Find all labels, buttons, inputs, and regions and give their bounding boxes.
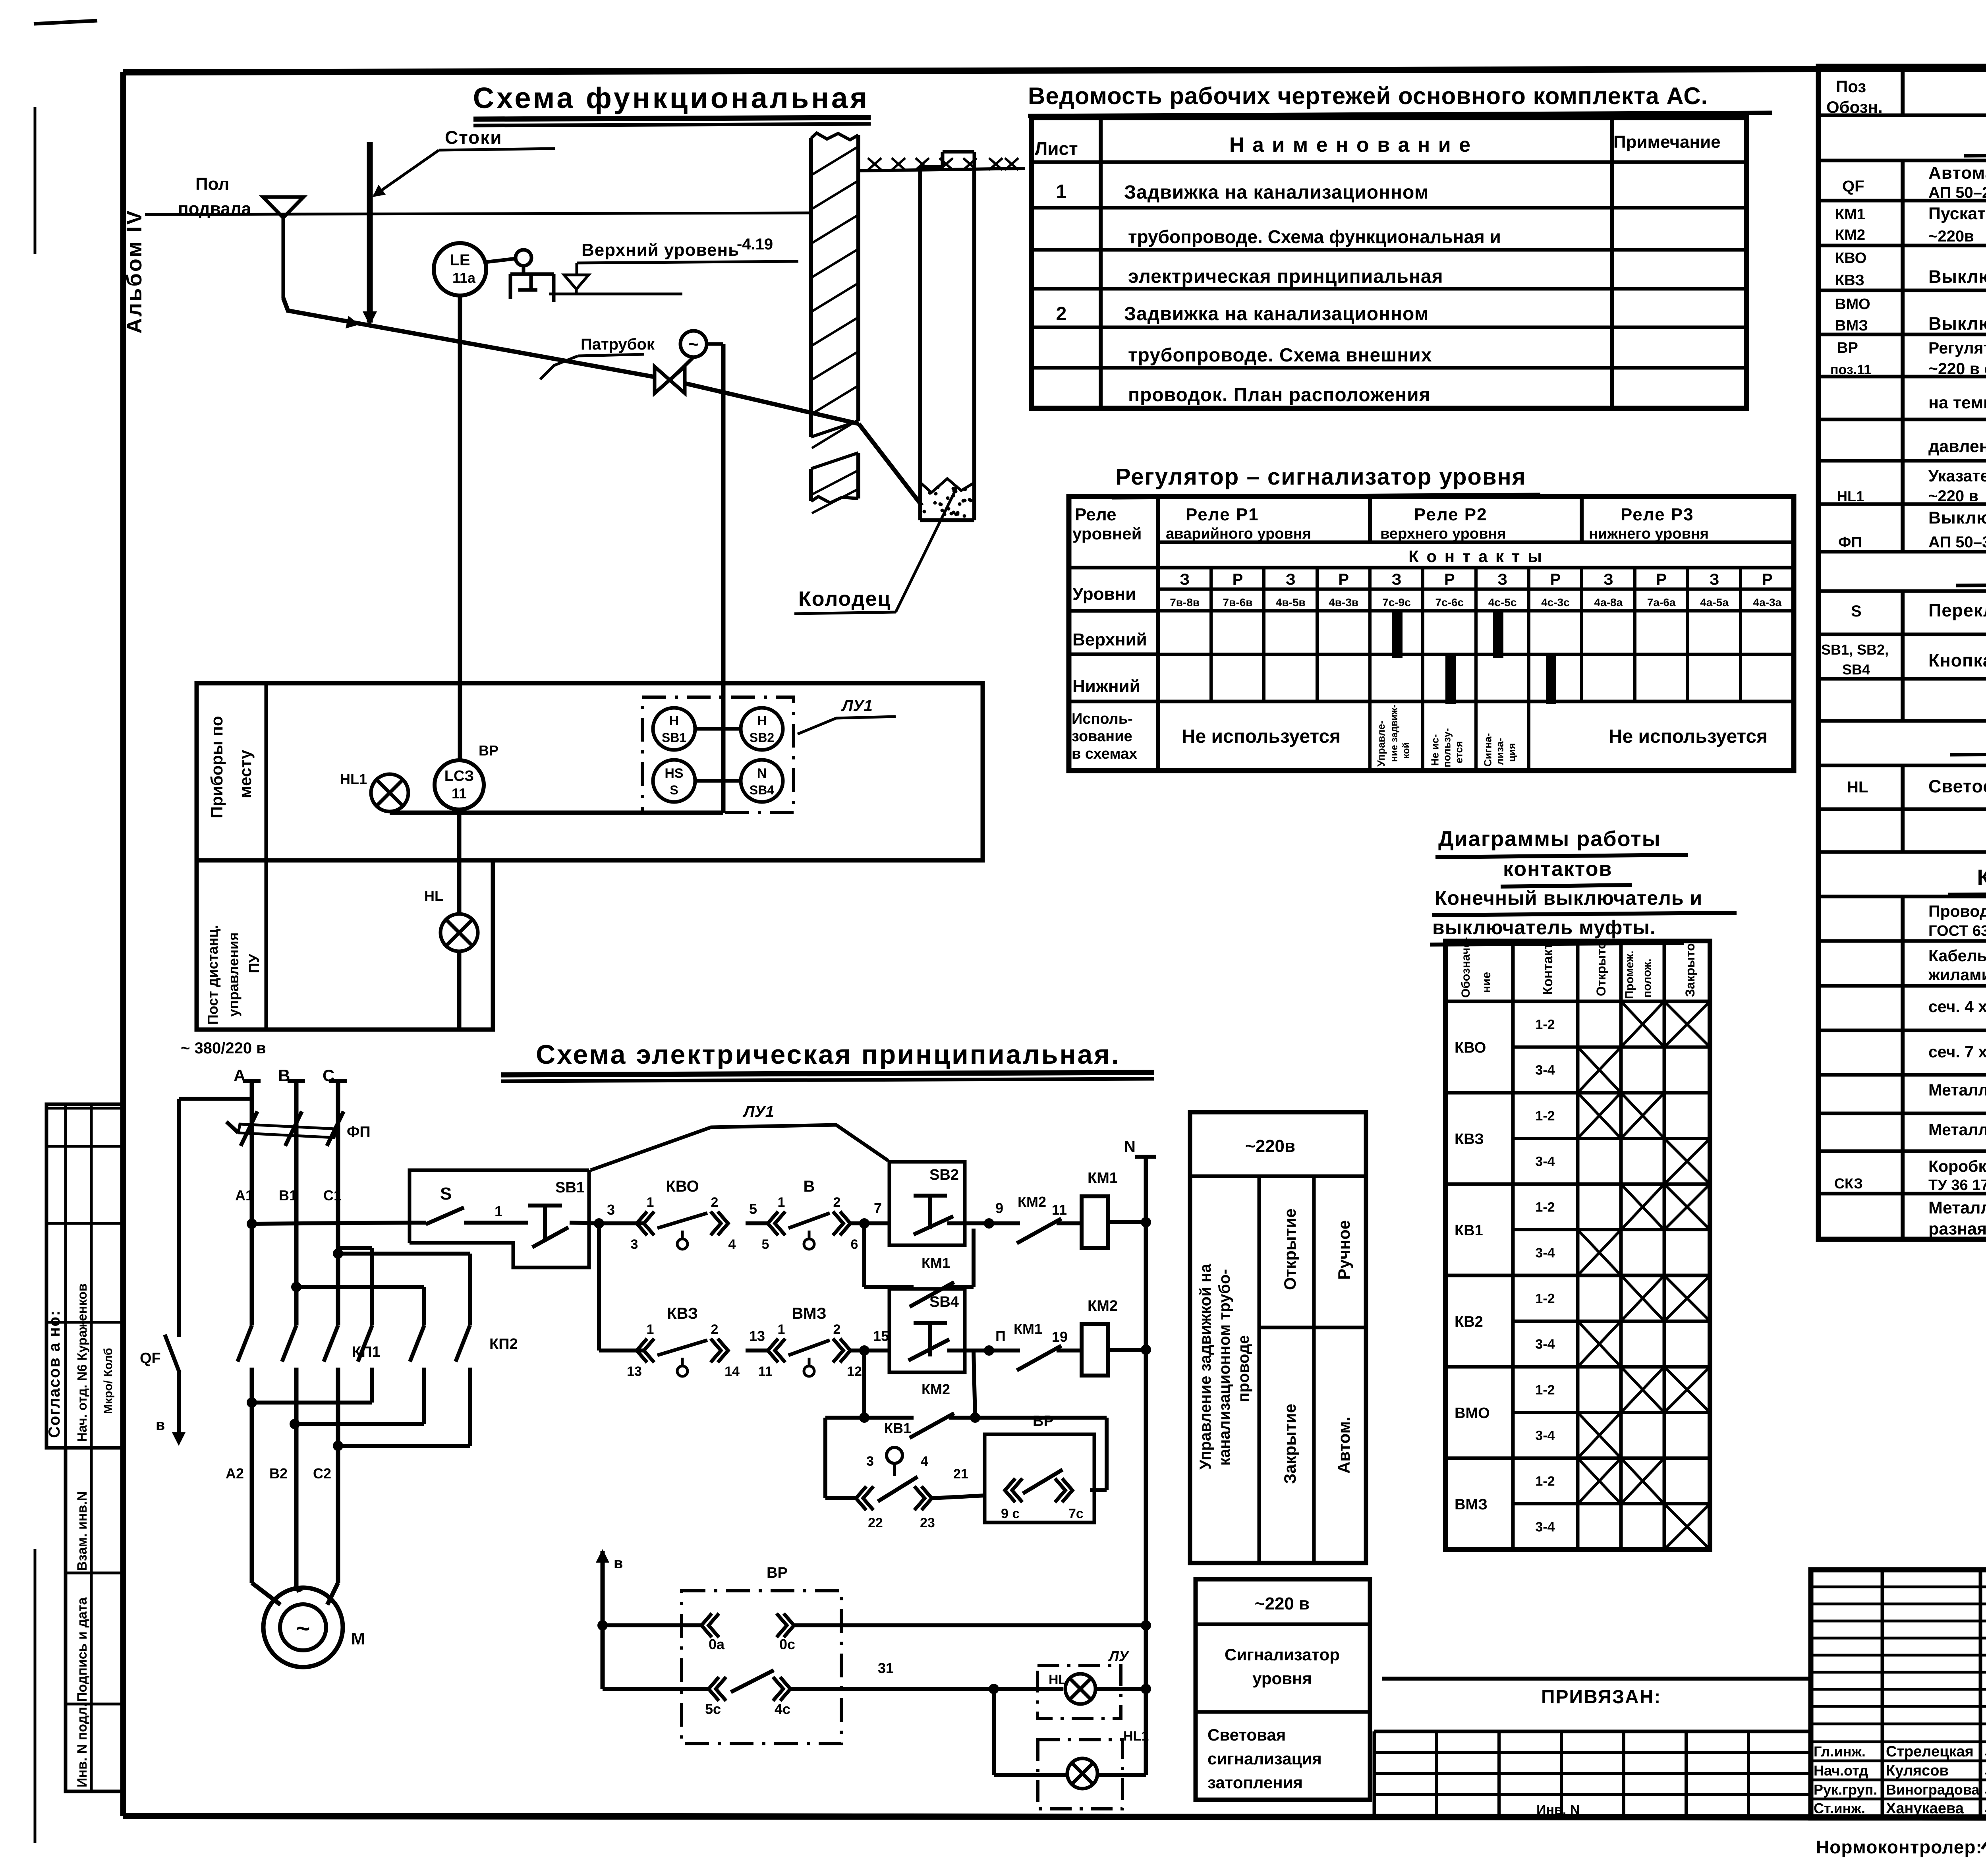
svg-text:Переключатель: Переключатель [1928, 600, 1986, 620]
svg-text:аварийного уровня: аварийного уровня [1166, 526, 1311, 542]
svg-text:С1: С1 [323, 1187, 342, 1204]
svg-text:сеч. 7 х 2,5: сеч. 7 х 2,5 [1928, 1043, 1986, 1061]
svg-text:З: З [1497, 571, 1507, 588]
svg-text:электрическая принципиальная: электрическая принципиальная [1128, 266, 1443, 287]
svg-text:В: В [804, 1178, 815, 1195]
button SB4 [889, 1289, 965, 1372]
svg-text:нижнего уровня: нижнего уровня [1589, 526, 1709, 542]
svg-text:21: 21 [953, 1466, 968, 1482]
svg-text:в схемах: в схемах [1072, 746, 1137, 762]
svg-text:Металлорукав РЗ-Ц-Х-20: Металлорукав РЗ-Ц-Х-20 [1928, 1121, 1986, 1139]
wire LCS down to HL [457, 810, 462, 914]
actuator circle [680, 331, 707, 357]
svg-text:Выключатель конечный муфты: Выключатель конечный муфты [1928, 313, 1986, 334]
svg-text:сеч. 4 х 2,5: сеч. 4 х 2,5 [1928, 997, 1986, 1016]
svg-text:Кулясов: Кулясов [1886, 1762, 1949, 1779]
svg-text:разная ): разная ) [1928, 1219, 1986, 1238]
svg-text:Исполь-: Исполь- [1072, 711, 1133, 727]
svg-text:LCЗ: LCЗ [444, 768, 474, 784]
svg-text:4: 4 [921, 1454, 928, 1469]
svg-text:Сигнализатор: Сигнализатор [1225, 1645, 1340, 1664]
svg-text:3-4: 3-4 [1535, 1520, 1555, 1535]
svg-text:Нач. отд. N6 Кураженков: Нач. отд. N6 Кураженков [75, 1283, 89, 1442]
svg-text:ВР: ВР [1837, 340, 1858, 356]
svg-text:SB2: SB2 [929, 1167, 959, 1183]
wire from sheet (в) [596, 1549, 609, 1563]
level sensor LE 11a [434, 243, 486, 296]
svg-text:~220 в с двумя датчиками: ~220 в с двумя датчиками l = 0.25 м [1928, 359, 1986, 378]
svg-text:контактов: контактов [1503, 858, 1612, 881]
svg-text:Пускатель реверсивный ПМЕ-12: Пускатель реверсивный ПМЕ-124. [1928, 204, 1986, 223]
svg-text:Р: Р [1444, 571, 1455, 588]
svg-text:Стрелецкая: Стрелецкая [1886, 1743, 1974, 1760]
svg-text:4а-8а: 4а-8а [1594, 596, 1623, 609]
svg-text:ЛУ: ЛУ [1108, 1648, 1130, 1664]
concrete wall hatched [811, 133, 858, 140]
svg-text:23: 23 [920, 1515, 935, 1530]
svg-text:9: 9 [995, 1200, 1003, 1216]
svg-text:~220 в: ~220 в [1928, 487, 1978, 505]
svg-text:1-2: 1-2 [1535, 1109, 1555, 1124]
svg-text:7с-9с: 7с-9с [1382, 596, 1411, 609]
svg-text:1: 1 [495, 1203, 502, 1219]
svg-text:6: 6 [851, 1237, 858, 1252]
svg-text:SB4: SB4 [929, 1294, 959, 1310]
svg-text:Автоматический выключатель: Автоматический выключатель [1928, 163, 1986, 183]
svg-text:4в-5в: 4в-5в [1276, 596, 1306, 609]
aux contact КМ2 branch [862, 1350, 866, 1418]
closed contact bars [1392, 611, 1403, 658]
svg-text:ПУ: ПУ [246, 954, 262, 973]
rung 1 wire [252, 1223, 409, 1224]
svg-text:HS: HS [665, 766, 683, 781]
svg-text:3-4: 3-4 [1535, 1063, 1555, 1078]
svg-text:HL1: HL1 [1123, 1729, 1149, 1744]
svg-text:А1: А1 [235, 1187, 253, 1204]
svg-text:уровня: уровня [1252, 1669, 1312, 1688]
svg-text:Н: Н [669, 713, 679, 728]
phase C rail [329, 1079, 347, 1083]
svg-text:HL: HL [1049, 1672, 1066, 1687]
svg-text:1-2: 1-2 [1535, 1200, 1555, 1215]
svg-text:Не используется: Не используется [1609, 726, 1768, 747]
left approval strip table [46, 1104, 123, 1448]
svg-text:1: 1 [647, 1195, 654, 1210]
svg-text:ВМЗ: ВМЗ [1455, 1496, 1488, 1513]
svg-text:Задвижка на канализационном: Задвижка на канализационном [1124, 182, 1429, 203]
svg-text:ВМО: ВМО [1455, 1405, 1490, 1422]
svg-text:месту: месту [236, 750, 255, 798]
svg-text:Конечный выключатель и: Конечный выключатель и [1435, 887, 1702, 909]
svg-text:КМ1: КМ1 [1835, 206, 1865, 223]
box Пост дистанц управления ПУ [197, 860, 493, 1030]
svg-text:N: N [757, 766, 767, 781]
svg-text:ВМЗ: ВМЗ [792, 1305, 826, 1322]
limit switch КВЗ [637, 1339, 647, 1362]
panel ЛУ1 boundary [591, 1125, 888, 1170]
svg-text:Открыто: Открыто [1594, 941, 1608, 996]
wire HL1 to control [390, 811, 723, 815]
wire LE to electrode [485, 259, 516, 262]
svg-text:лиза-: лиза- [1494, 738, 1506, 765]
svg-text:трубопроводе. Схема функционал: трубопроводе. Схема функциональная и [1128, 226, 1501, 247]
svg-text:S: S [1851, 603, 1862, 620]
svg-text:Согласов а но:: Согласов а но: [46, 1310, 63, 1438]
svg-text:Инв. N подл.: Инв. N подл. [75, 1703, 90, 1787]
svg-text:5с: 5с [705, 1701, 721, 1717]
valve [672, 357, 694, 378]
svg-text:Р: Р [1233, 571, 1243, 588]
lamp HL1 branch [992, 1689, 996, 1775]
svg-text:~: ~ [688, 334, 699, 354]
svg-text:Металлорукав РЗ-Ц-Х-15: Металлорукав РЗ-Ц-Х-15 [1928, 1081, 1986, 1099]
svg-text:КМ2: КМ2 [1088, 1298, 1118, 1314]
svg-text:АП 50–2м Iн.Р.=1.6А Iом: АП 50–2м Iн.Р.=1.6А Iомс.=1,3Iн [1928, 184, 1986, 201]
svg-text:Провод с медными жилами ПВ: Провод с медными жилами ПВ 1х1.0 [1928, 902, 1986, 920]
svg-text:2: 2 [711, 1322, 719, 1337]
svg-text:HL1: HL1 [1837, 488, 1864, 504]
svg-text:Н: Н [757, 713, 767, 728]
switch HS S [653, 760, 695, 802]
svg-text:З: З [1180, 571, 1190, 588]
svg-text:7в-8в: 7в-8в [1170, 596, 1200, 609]
svg-text:Реле Р2: Реле Р2 [1414, 505, 1488, 524]
svg-text:ГОСТ 6323-79.: ГОСТ 6323-79. [1928, 923, 1986, 939]
drain stack wire [367, 142, 373, 323]
svg-text:полож.: полож. [1641, 959, 1654, 998]
svg-text:жилами АКВВГ ГОСТ 1308-78: жилами АКВВГ ГОСТ 1308-78 [1928, 966, 1986, 984]
svg-text:1: 1 [647, 1322, 654, 1337]
svg-text:11а: 11а [452, 270, 476, 286]
signature grid [1881, 1570, 1884, 1818]
привязан area [1382, 1677, 1811, 1681]
svg-text:1: 1 [1056, 181, 1067, 202]
svg-text:Закрытие: Закрытие [1281, 1404, 1299, 1484]
svg-text:Кнопка управления: Кнопка управления [1928, 650, 1986, 670]
svg-text:11: 11 [452, 785, 467, 802]
page edge marks [34, 107, 37, 254]
svg-text:7а-6а: 7а-6а [1647, 596, 1676, 609]
svg-text:Коробка соединительная КСК-3: Коробка соединительная КСК-32 [1928, 1157, 1986, 1175]
svg-text:Пол: Пол [195, 174, 229, 194]
svg-text:Нижний: Нижний [1072, 676, 1140, 696]
svg-text:Закрыто: Закрыто [1683, 943, 1697, 997]
svg-text:3: 3 [607, 1202, 615, 1218]
svg-text:Приборы по: Приборы по [207, 716, 226, 818]
svg-text:КМ2: КМ2 [922, 1381, 950, 1397]
svg-text:~220 в: ~220 в [1255, 1594, 1310, 1613]
svg-text:КВ2: КВ2 [1455, 1314, 1483, 1330]
branch down to КВ1 rung [823, 1418, 827, 1498]
svg-text:3-4: 3-4 [1535, 1337, 1555, 1352]
svg-text:Примечание: Примечание [1613, 132, 1721, 152]
svg-text:Схема функциональная: Схема функциональная [473, 81, 870, 114]
svg-text:11: 11 [1052, 1202, 1067, 1218]
svg-text:2: 2 [833, 1322, 841, 1337]
svg-text:ФП: ФП [347, 1124, 371, 1140]
svg-text:В2: В2 [269, 1465, 288, 1482]
svg-text:Подпись и дата: Подпись и дата [75, 1597, 90, 1702]
svg-text:Ведомость рабочих чертежей ос: Ведомость рабочих чертежей основного ком… [1028, 83, 1708, 109]
svg-text:уровней: уровней [1072, 524, 1142, 543]
aux contact КМ1 (seal-in) [862, 1223, 866, 1287]
svg-text:ФП: ФП [1838, 534, 1862, 551]
svg-text:КВ1: КВ1 [884, 1420, 911, 1436]
svg-text:Р: Р [1338, 571, 1349, 588]
svg-text:4а-3а: 4а-3а [1753, 596, 1782, 609]
svg-text:Поз: Поз [1836, 77, 1866, 96]
motor M [263, 1588, 343, 1667]
svg-text:1-2: 1-2 [1535, 1291, 1555, 1306]
svg-text:Управле-: Управле- [1375, 721, 1387, 767]
svg-text:5: 5 [762, 1237, 769, 1252]
limit switch В [768, 1211, 778, 1235]
svg-text:2: 2 [1056, 303, 1067, 325]
node 3 [594, 1218, 604, 1229]
limit switch КВО [637, 1211, 647, 1235]
svg-text:Нормоконтролер:: Нормоконтролер: [1816, 1837, 1982, 1857]
svg-text:Выключатель конечный: Выключатель конечный [1928, 267, 1986, 287]
ground line with x hatching [858, 168, 1025, 171]
svg-text:31: 31 [878, 1660, 894, 1676]
svg-text:АП 50–3мт.: АП 50–3мт. [1928, 533, 1986, 551]
svg-text:КВО: КВО [666, 1178, 699, 1195]
svg-text:3-4: 3-4 [1535, 1154, 1555, 1169]
svg-text:13: 13 [627, 1364, 642, 1379]
phase rails to motor [250, 1368, 254, 1583]
svg-text:Схема электрическая принци: Схема электрическая принципиальная. [536, 1039, 1121, 1070]
svg-text:сигнализация: сигнализация [1207, 1749, 1322, 1768]
svg-text:КП1: КП1 [352, 1344, 381, 1360]
svg-text:SB1, SB2,: SB1, SB2, [1821, 641, 1889, 658]
svg-text:1: 1 [778, 1322, 785, 1337]
svg-text:7с: 7с [1068, 1506, 1084, 1521]
svg-text:ние: ние [1480, 972, 1493, 993]
svg-text:в: в [614, 1555, 623, 1572]
floor drain funnel [263, 197, 303, 218]
svg-text:SB1: SB1 [555, 1179, 585, 1196]
wire LE down to LCS [458, 296, 462, 760]
control wire from actuator down [707, 342, 723, 346]
svg-text:7с-6с: 7с-6с [1435, 596, 1464, 609]
svg-text:5: 5 [749, 1201, 757, 1217]
svg-text:Ханукаева: Ханукаева [1886, 1800, 1964, 1817]
svg-text:канализационном трубо-: канализационном трубо- [1216, 1269, 1233, 1466]
svg-text:Стоки: Стоки [445, 127, 502, 148]
svg-text:~220в: ~220в [1928, 228, 1974, 245]
rung 2 feeder [597, 1223, 601, 1350]
svg-text:Н а и м е н о в а н и е: Н а и м е н о в а н и е [1229, 133, 1472, 156]
svg-text:22: 22 [868, 1515, 883, 1530]
contact 5с-4с rung [603, 1687, 709, 1691]
svg-text:Виноградова: Виноградова [1886, 1781, 1980, 1798]
reversing crossover wires (bottom) [370, 1368, 374, 1403]
svg-text:Открытие: Открытие [1281, 1208, 1299, 1290]
svg-text:Металлоконструкции (сталь: Металлоконструкции (сталь [1928, 1198, 1986, 1217]
svg-text:Светосигнальная арматура: Светосигнальная арматура [1928, 776, 1986, 796]
svg-text:1-2: 1-2 [1535, 1383, 1555, 1398]
svg-text:Гл.инж.: Гл.инж. [1814, 1743, 1866, 1760]
svg-text:поз.11: поз.11 [1830, 362, 1871, 377]
svg-text:ВР: ВР [479, 742, 498, 759]
contactor poles КП1 [238, 1325, 252, 1362]
svg-text:Кабель контрольный с алюмини: Кабель контрольный с алюминиевыми [1928, 947, 1986, 965]
svg-text:Пост дистанц.: Пост дистанц. [205, 925, 221, 1025]
well (Колодец) [943, 150, 974, 154]
svg-text:3: 3 [631, 1237, 638, 1252]
svg-text:SB1: SB1 [662, 730, 686, 745]
svg-text:З: З [1391, 571, 1401, 588]
svg-text:затопления: затопления [1207, 1773, 1303, 1792]
svg-text:выключатель муфты.: выключатель муфты. [1432, 916, 1656, 939]
svg-text:ВР: ВР [1033, 1413, 1054, 1430]
svg-text:9 с: 9 с [1001, 1506, 1020, 1521]
svg-text:КМ2: КМ2 [1018, 1194, 1046, 1210]
svg-text:А2: А2 [226, 1465, 244, 1482]
svg-text:Кабели и провода: Кабели и провода [1977, 865, 1986, 890]
svg-text:В1: В1 [279, 1187, 297, 1204]
breaker ФП (3-pole) [241, 1111, 257, 1146]
title block outline [1811, 1570, 1986, 1818]
svg-text:Реле Р1: Реле Р1 [1186, 505, 1259, 524]
svg-text:7в-6в: 7в-6в [1223, 596, 1253, 609]
svg-text:SB4: SB4 [1842, 661, 1870, 678]
svg-text:КВЗ: КВЗ [667, 1305, 698, 1322]
border frame [123, 68, 1986, 72]
svg-text:3-4: 3-4 [1535, 1246, 1555, 1261]
svg-text:КВ1: КВ1 [1455, 1222, 1483, 1239]
svg-text:Инв. N: Инв. N [1536, 1803, 1580, 1818]
svg-text:зование: зование [1072, 728, 1132, 745]
svg-text:Взам. инв.N: Взам. инв.N [75, 1492, 90, 1571]
contact state table [1445, 941, 1710, 1549]
svg-text:1-2: 1-2 [1535, 1017, 1555, 1032]
svg-text:ПРИВЯЗАН:: ПРИВЯЗАН: [1541, 1687, 1661, 1708]
svg-text:Лист: Лист [1035, 138, 1078, 159]
svg-text:19: 19 [1052, 1329, 1068, 1345]
limit switch ВМЗ [768, 1339, 778, 1362]
svg-text:ВМЗ: ВМЗ [1835, 317, 1868, 334]
svg-text:Нач.отд: Нач.отд [1814, 1762, 1868, 1779]
svg-text:Рук.груп.: Рук.груп. [1814, 1781, 1877, 1798]
phase B rail [288, 1079, 305, 1083]
svg-text:1-2: 1-2 [1535, 1474, 1555, 1489]
svg-text:-4.19: -4.19 [737, 236, 773, 253]
svg-text:0а: 0а [709, 1636, 725, 1652]
svg-text:Альбом IV: Альбом IV [122, 209, 146, 334]
wire to QF [179, 1097, 252, 1101]
svg-text:П: П [995, 1328, 1006, 1344]
legend box Сигнализатор уровня [1196, 1579, 1370, 1800]
svg-text:Выключатель автоматический: Выключатель автоматический [1928, 508, 1986, 527]
svg-text:Р: Р [1656, 571, 1667, 588]
svg-text:З: З [1603, 571, 1613, 588]
svg-text:КМ1: КМ1 [1014, 1321, 1042, 1337]
relay level table [1069, 497, 1794, 771]
svg-text:HL: HL [424, 888, 443, 904]
local post ПУ1 dash-dot box [642, 697, 794, 813]
svg-text:N: N [1124, 1138, 1136, 1155]
phase A rail [243, 1079, 261, 1083]
svg-text:11: 11 [758, 1364, 773, 1379]
svg-text:КМ2: КМ2 [1835, 227, 1865, 243]
svg-text:S: S [440, 1184, 452, 1204]
sewer pipe [283, 298, 655, 377]
svg-text:Р: Р [1550, 571, 1561, 588]
contact 0а-0с rung [603, 1623, 701, 1627]
svg-text:Верхний: Верхний [1072, 630, 1147, 649]
svg-text:14: 14 [724, 1364, 740, 1379]
svg-text:ТУ 36 1753-75: ТУ 36 1753-75 [1928, 1177, 1986, 1194]
svg-text:К о н т а к т ы: К о н т а к т ы [1408, 547, 1544, 566]
svg-text:Световая: Световая [1207, 1725, 1286, 1744]
button N SB4 [741, 760, 783, 802]
svg-text:1: 1 [778, 1195, 785, 1210]
level mark [564, 275, 589, 289]
svg-text:Колодец: Колодец [798, 587, 891, 611]
svg-text:Указатель световой СУП-м (ин: Указатель световой СУП-м (инд. К-574) [1928, 467, 1986, 485]
svg-text:С2: С2 [313, 1465, 331, 1482]
svg-text:ется: ется [1453, 741, 1464, 763]
reversing crossover wires (top) [338, 1246, 372, 1250]
svg-text:давление до 25 кгс / см²: давление до 25 кгс / см² [1928, 437, 1986, 456]
svg-text:Реле Р3: Реле Р3 [1621, 505, 1694, 524]
svg-text:М: М [351, 1629, 365, 1648]
svg-text:4: 4 [728, 1237, 736, 1252]
svg-text:Верхний уровень: Верхний уровень [582, 240, 739, 260]
svg-text:КВО: КВО [1455, 1039, 1486, 1056]
svg-text:SB2: SB2 [750, 730, 774, 745]
svg-text:HL1: HL1 [340, 771, 367, 787]
svg-text:4с: 4с [775, 1701, 790, 1717]
svg-text:З: З [1286, 571, 1296, 588]
button SB2 [889, 1162, 965, 1245]
svg-text:Уровни: Уровни [1072, 584, 1136, 604]
svg-text:верхнего уровня: верхнего уровня [1380, 526, 1506, 542]
switch box S / SB1 (panel outline) [410, 1170, 589, 1243]
svg-text:ВМО: ВМО [1835, 296, 1870, 313]
svg-text:4в-3в: 4в-3в [1329, 596, 1358, 609]
svg-text:SB4: SB4 [750, 783, 774, 797]
svg-text:Сигна-: Сигна- [1482, 733, 1494, 767]
water level line [549, 293, 682, 296]
svg-text:Управление задвижкой на: Управление задвижкой на [1197, 1264, 1214, 1470]
svg-text:Регулятор-сигнализатор уровня: Регулятор-сигнализатор уровня ЭРСУ-3 [1928, 339, 1986, 357]
svg-text:13: 13 [749, 1328, 765, 1344]
svg-text:Патрубок: Патрубок [581, 336, 655, 353]
svg-text:ЛУ1: ЛУ1 [841, 697, 873, 715]
svg-text:QF: QF [140, 1350, 161, 1367]
svg-text:КВО: КВО [1835, 250, 1866, 267]
wall pipe gap dashes [811, 421, 858, 437]
box Приборы по месту [197, 683, 983, 860]
small reference table [1374, 1730, 1811, 1733]
button H SB1 [653, 708, 695, 750]
svg-text:~ 380/220 в: ~ 380/220 в [181, 1039, 266, 1057]
svg-text:7: 7 [874, 1200, 882, 1216]
svg-text:0с: 0с [779, 1636, 795, 1652]
svg-text:Задвижка на канализационном: Задвижка на канализационном [1124, 303, 1429, 325]
sheet list table [1032, 118, 1746, 408]
svg-text:ние задвиж-: ние задвиж- [1389, 705, 1400, 762]
svg-text:З: З [1709, 571, 1719, 588]
svg-text:пользу-: пользу- [1441, 728, 1453, 767]
svg-text:Ст.инж.: Ст.инж. [1814, 1800, 1865, 1816]
svg-text:в: в [156, 1417, 165, 1434]
svg-text:Автом.: Автом. [1335, 1417, 1353, 1474]
svg-text:КМ1: КМ1 [1088, 1170, 1118, 1186]
svg-text:~220в: ~220в [1245, 1136, 1295, 1156]
